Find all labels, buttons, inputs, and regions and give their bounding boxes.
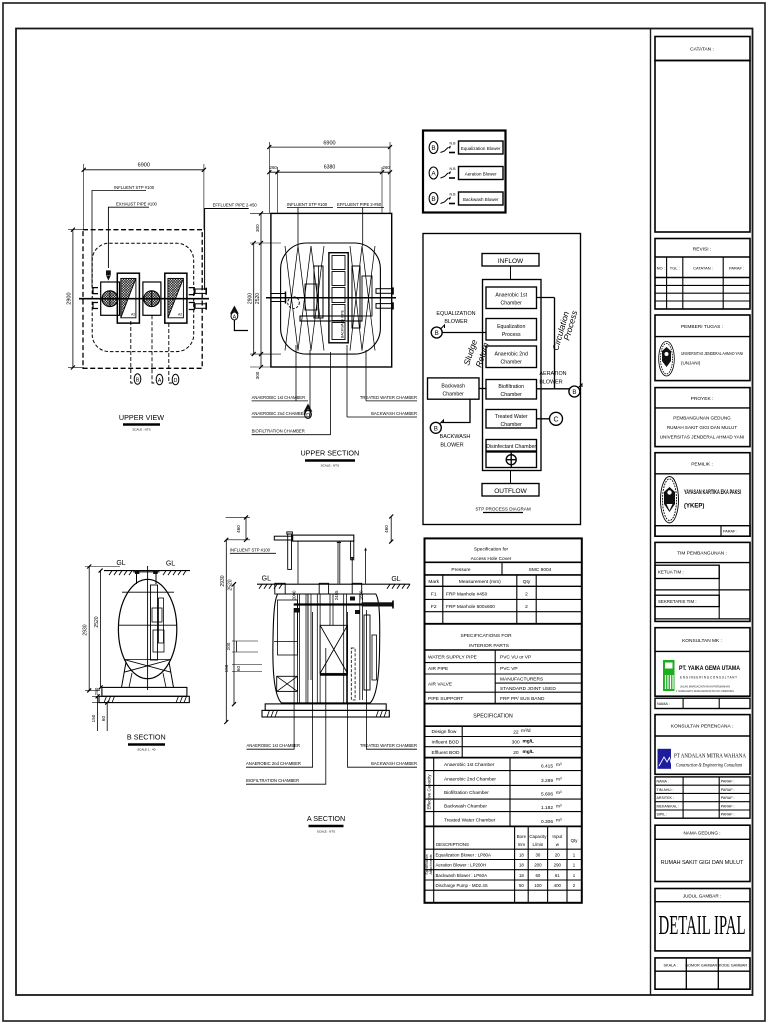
partitions (298, 594, 363, 704)
svg-text:Chamber: Chamber (501, 392, 523, 398)
svg-text:AIR PIPE: AIR PIPE (428, 666, 448, 672)
svg-text:Aeration Blower : LP200H: Aeration Blower : LP200H (436, 863, 487, 868)
andalan mitra wahana logo (658, 749, 673, 769)
svg-text:2485: 2485 (334, 590, 339, 600)
catatan body box (655, 61, 750, 233)
proyek section (655, 388, 750, 447)
svg-text:A SECTION: A SECTION (307, 814, 345, 823)
blower symbol B equalization (431, 327, 442, 338)
wire backwash chamber down to blower (442, 399, 471, 422)
svg-text:MEKANIKAL :: MEKANIKAL : (657, 804, 679, 808)
svg-text:Pressure: Pressure (451, 567, 471, 573)
svg-text:CATATAN :: CATATAN : (693, 266, 713, 271)
effluent pipes right (376, 289, 393, 294)
water levels (122, 591, 174, 593)
svg-text:PARAF :: PARAF : (721, 796, 735, 800)
egg tank b section (118, 579, 176, 678)
svg-text:D: D (306, 413, 310, 419)
svg-text:260: 260 (270, 165, 278, 170)
svg-text:460: 460 (236, 525, 241, 533)
disinfectant symbol box (486, 452, 537, 468)
catatan header box (655, 37, 750, 61)
ground hatch right a (387, 584, 410, 589)
tank neck b section (135, 570, 140, 574)
svg-text:Aeration Blower: Aeration Blower (465, 171, 497, 176)
svg-text:FRP PP/ SUS BAND: FRP PP/ SUS BAND (500, 696, 545, 702)
svg-text:300: 300 (512, 740, 520, 746)
svg-text:Measurement (mm): Measurement (mm) (459, 579, 501, 585)
svg-text:400: 400 (554, 883, 562, 888)
svg-text:Access Hole Cover: Access Hole Cover (471, 556, 512, 562)
svg-text:SEKRETARIS TIM :: SEKRETARIS TIM : (658, 599, 697, 604)
svg-text:FRP Manhole 600x600: FRP Manhole 600x600 (446, 604, 495, 610)
slab hatches (104, 696, 115, 702)
svg-text:SPECIFICATION: SPECIFICATION (473, 714, 513, 720)
svg-text:NO :: NO : (657, 266, 665, 271)
svg-text:GL: GL (262, 576, 271, 583)
svg-text:AIR VALVE: AIR VALVE (428, 682, 452, 688)
svg-text:60: 60 (236, 666, 241, 672)
ground line b section (104, 570, 190, 572)
svg-text:PVC VP: PVC VP (500, 666, 518, 672)
svg-text:GL: GL (116, 560, 125, 567)
specification section (425, 725, 582, 727)
yaika gema utama logo (663, 660, 675, 691)
svg-text:BLOWER: BLOWER (444, 319, 467, 325)
svg-text:B SECTION: B SECTION (127, 733, 166, 742)
svg-text:BIOFILTRATION CHAMBER: BIOFILTRATION CHAMBER (246, 778, 299, 783)
svg-text:UNIVERSITAS JENDERAL AHMAD YAN: UNIVERSITAS JENDERAL AHMAD YANI (660, 435, 745, 440)
svg-text:ANAEROBIC 2nd CHAMBER: ANAEROBIC 2nd CHAMBER (246, 761, 301, 766)
svg-text:2520: 2520 (255, 293, 261, 304)
svg-text:PEMBERI TUGAS :: PEMBERI TUGAS : (681, 324, 723, 330)
svg-text:PARAF :: PARAF : (721, 780, 735, 784)
svg-text:mg/L: mg/L (523, 749, 535, 755)
judul gambar section (655, 889, 750, 951)
legend row aeration blower (429, 167, 503, 180)
stem to tag A (152, 315, 156, 383)
svg-text:m³: m³ (556, 790, 562, 796)
svg-text:UPPER VIEW: UPPER VIEW (119, 413, 164, 422)
svg-text:INFLOW: INFLOW (498, 258, 524, 265)
svg-text:mg/L: mg/L (523, 738, 535, 744)
unjani logo (659, 341, 675, 376)
legend row backwash blower (429, 192, 503, 205)
svg-text:B: B (434, 425, 438, 432)
svg-text:NOMOR GAMBAR :: NOMOR GAMBAR : (685, 964, 719, 968)
influent pipe (271, 294, 286, 302)
svg-text:Chamber: Chamber (501, 422, 523, 428)
legend box (423, 131, 506, 213)
svg-text:ANAEROBIC 2nd CHAMBER: ANAEROBIC 2nd CHAMBER (252, 411, 307, 416)
blower symbol B aeration (569, 386, 580, 397)
svg-text:Attachments: Attachments (429, 854, 433, 874)
svg-text:FRP Manhole #450: FRP Manhole #450 (446, 592, 488, 598)
svg-text:SKALA :: SKALA : (664, 964, 678, 968)
svg-text:m³: m³ (556, 804, 562, 810)
wire equalization blower to process (442, 332, 486, 334)
svg-text:SMC 9004: SMC 9004 (529, 567, 552, 573)
svg-text:1.182: 1.182 (541, 805, 553, 811)
svg-text:A2: A2 (131, 313, 135, 317)
center axis line (79, 298, 209, 300)
internal pipes anaerobic (314, 266, 323, 318)
svg-text:KODE GAMBAR :: KODE GAMBAR : (719, 964, 749, 968)
svg-text:PEMBANGUNAN GEDUNG: PEMBANGUNAN GEDUNG (673, 416, 731, 421)
spec table outer box (425, 538, 582, 902)
upper section outer box (271, 213, 392, 367)
effluent pipe stubs (195, 289, 206, 293)
svg-text:Qty: Qty (523, 579, 531, 585)
svg-text:Process: Process (502, 332, 521, 338)
dim 2930 b section (85, 565, 120, 693)
svg-text:6900: 6900 (323, 141, 335, 147)
svg-text:Treated Water: Treated Water (495, 414, 528, 420)
svg-text:J. MARGAHAYU KENCANA BLOK B-II: J. MARGAHAYU KENCANA BLOK B-II NO.1 BAND… (676, 689, 734, 693)
svg-text:NAMA :: NAMA : (657, 702, 670, 706)
dim 460 top right a section (389, 515, 393, 544)
effective capacity group (425, 770, 582, 772)
svg-text:m³: m³ (556, 818, 562, 824)
stem to tag D (169, 323, 172, 383)
wire biofiltration to aeration blower (537, 388, 572, 390)
dim 2520 b section (99, 569, 103, 690)
svg-text:SCALE : NTS: SCALE : NTS (132, 428, 150, 432)
base slab b section (102, 687, 187, 696)
svg-text:SCALE 1 : 40: SCALE 1 : 40 (137, 748, 156, 752)
svg-text:Chamber: Chamber (501, 360, 523, 366)
tim pembangunan section (655, 542, 750, 621)
svg-text:SCALE : NTS: SCALE : NTS (317, 830, 335, 834)
svg-text:D: D (174, 378, 178, 384)
svg-text:RUMAH SAKIT GIGI DAN MULUT: RUMAH SAKIT GIGI DAN MULUT (667, 425, 738, 430)
svg-text:6380: 6380 (324, 165, 336, 171)
hatched square 1 (117, 273, 139, 323)
svg-text:Backwash Chamber: Backwash Chamber (444, 804, 487, 810)
dim 6900 upper section (267, 145, 392, 149)
stp diagram outer box (423, 234, 581, 525)
svg-text:Treated Water Chamber: Treated Water Chamber (444, 818, 496, 824)
svg-text:Discharge Pump - MD2.4S: Discharge Pump - MD2.4S (436, 883, 488, 888)
svg-text:Mark: Mark (428, 579, 439, 585)
svg-text:Capacity: Capacity (529, 834, 547, 839)
svg-text:Effluent BOD: Effluent BOD (432, 750, 460, 756)
right chamber internals (351, 648, 355, 700)
top riser boxes (275, 583, 285, 594)
svg-text:F1: F1 (431, 592, 437, 598)
bottom cross bracing (124, 660, 171, 673)
revisi section box (655, 239, 750, 310)
svg-text:Equalization Blower : LP80A: Equalization Blower : LP80A (436, 853, 491, 858)
svg-text:PT. YAIKA GEMA UTAMA: PT. YAIKA GEMA UTAMA (679, 665, 740, 672)
media column (329, 253, 348, 343)
collector band (300, 316, 362, 321)
svg-text:C: C (553, 417, 558, 424)
access hole cover table (425, 561, 582, 563)
svg-text:250: 250 (94, 687, 99, 695)
base slab a section (265, 704, 386, 711)
svg-text:3.289: 3.289 (541, 778, 553, 784)
svg-text:5.606: 5.606 (541, 792, 553, 798)
konsultan perencana section (655, 715, 750, 775)
baffle cones (285, 246, 375, 351)
svg-text:KONSULTAN MK :: KONSULTAN MK : (682, 638, 722, 644)
svg-text:A2: A2 (178, 313, 182, 317)
svg-text:150: 150 (91, 714, 96, 722)
section marker D (304, 404, 313, 412)
ground hatch left (109, 571, 132, 576)
svg-text:AERATION: AERATION (539, 371, 566, 377)
svg-text:PVC VU or VP: PVC VU or VP (500, 655, 531, 661)
backwash chamber box (428, 378, 480, 399)
svg-text:Bore: Bore (517, 834, 527, 839)
svg-text:Biofiltration: Biofiltration (498, 384, 524, 390)
svg-text:TIM PEMBANGUNAN :: TIM PEMBANGUNAN : (677, 551, 727, 557)
outlet brackets (189, 288, 195, 310)
svg-text:300: 300 (255, 224, 260, 232)
anaerobic 2nd chamber box (486, 346, 537, 368)
svg-text:Anaerobic 2nd: Anaerobic 2nd (494, 352, 528, 358)
svg-text:CATATAN :: CATATAN : (690, 47, 714, 53)
svg-text:SIPIL :: SIPIL : (657, 813, 668, 817)
wire anaerobic1 to circulation (537, 297, 555, 299)
svg-text:INTERIOR PARTS: INTERIOR PARTS (469, 643, 509, 649)
svg-text:Backwash: Backwash (441, 383, 465, 389)
blower symbol B backwash (430, 422, 441, 433)
slab hatches a (267, 710, 278, 717)
svg-text:290: 290 (554, 863, 562, 868)
svg-text:EFFLUENT PIPE 2-#50: EFFLUENT PIPE 2-#50 (213, 202, 258, 207)
svg-text:BACKWASH PIPE: BACKWASH PIPE (341, 309, 345, 338)
svg-text:PARAF :: PARAF : (721, 788, 735, 792)
ykep logo (661, 477, 679, 523)
svg-text:BACKWASH CHAMBER: BACKWASH CHAMBER (371, 411, 417, 416)
svg-text:YAYASAN KARTIKA EKA PAKSI: YAYASAN KARTIKA EKA PAKSI (684, 490, 741, 496)
svg-text:WATER SUPPLY PIPE: WATER SUPPLY PIPE (428, 655, 477, 661)
skala table (655, 958, 750, 989)
svg-text:BLOWER: BLOWER (440, 443, 463, 449)
svg-text:INFLUENT STP #100: INFLUENT STP #100 (114, 185, 155, 190)
svg-text:UNIVERSITAS JENDERAL AHMAD YAN: UNIVERSITAS JENDERAL AHMAD YANI (681, 351, 743, 356)
svg-text:2: 2 (525, 604, 528, 610)
pemilik paraf row (655, 526, 750, 537)
left dims upper section (250, 211, 281, 369)
svg-text:SCALE : NTS: SCALE : NTS (321, 464, 339, 468)
circle C treated water (550, 412, 563, 425)
outflow box (482, 484, 539, 497)
effluent pipe right (362, 602, 393, 606)
svg-text:18: 18 (519, 863, 524, 868)
small fittings (294, 608, 300, 613)
chamber container (483, 280, 542, 471)
svg-text:Biofiltration Chamber: Biofiltration Chamber (444, 790, 489, 796)
svg-text:JUDUL GAMBAR :: JUDUL GAMBAR : (683, 894, 721, 899)
svg-text:UPPER SECTION: UPPER SECTION (300, 449, 359, 458)
svg-text:Anaerobic 2nd Chamber: Anaerobic 2nd Chamber (444, 777, 496, 783)
internal pipes b section (151, 585, 158, 660)
svg-text:460: 460 (384, 525, 389, 533)
pemilik section (655, 453, 750, 537)
svg-text:NAMA :: NAMA : (657, 780, 669, 784)
svg-text:NAMA GEDUNG :: NAMA GEDUNG : (683, 831, 720, 836)
svg-text:ARSITEK :: ARSITEK : (657, 796, 674, 800)
svg-text:m³: m³ (556, 762, 562, 768)
svg-text:18: 18 (519, 853, 524, 858)
svg-text:Chamber: Chamber (501, 301, 523, 307)
legs (122, 662, 174, 687)
svg-text:MANUFACTURERS: MANUFACTURERS (500, 677, 543, 683)
ground hatch left a (259, 584, 282, 589)
legend row equalization blower (429, 141, 503, 154)
svg-text:KETUA TIM :: KETUA TIM : (658, 570, 684, 575)
tank body a section (273, 594, 380, 703)
svg-text:260: 260 (383, 165, 391, 170)
svg-text:Backwash Blower: Backwash Blower (463, 197, 499, 202)
svg-text:Disinfectant Chamber: Disinfectant Chamber (486, 444, 536, 450)
svg-text:150: 150 (224, 664, 229, 672)
svg-text:20: 20 (555, 853, 560, 858)
svg-text:GL: GL (391, 576, 400, 583)
svg-text:BACKWASH CHAMBER: BACKWASH CHAMBER (371, 761, 417, 766)
svg-text:Anaerobic 1st: Anaerobic 1st (495, 293, 527, 299)
svg-text:TREATED WATER CHAMBER: TREATED WATER CHAMBER (360, 743, 417, 748)
svg-text:F2: F2 (431, 604, 437, 610)
svg-text:61: 61 (555, 873, 560, 878)
svg-text:PROYEK :: PROYEK : (691, 396, 714, 402)
svg-text:m³/d: m³/d (521, 728, 531, 734)
svg-text:(UNJANI): (UNJANI) (681, 361, 701, 366)
svg-text:Design flow: Design flow (432, 729, 457, 735)
center axis upper section (266, 297, 396, 299)
svg-text:A: A (158, 378, 162, 384)
svg-text:2930: 2930 (220, 575, 226, 586)
dim 150 and 60 b section (92, 694, 112, 731)
title block divider line (650, 29, 652, 996)
right chamber equipment (352, 266, 360, 328)
svg-text:18: 18 (519, 873, 524, 878)
wire backwash chamber to biofiltration (479, 388, 486, 390)
svg-text:1850: 1850 (358, 590, 363, 600)
svg-text:(YKEP): (YKEP) (684, 504, 704, 510)
svg-text:2900: 2900 (248, 293, 254, 304)
biofiltration chamber box (486, 380, 537, 400)
svg-text:Chamber: Chamber (443, 391, 465, 397)
svg-text:RUMAH SAKIT GIGI DAN MULUT: RUMAH SAKIT GIGI DAN MULUT (661, 860, 744, 866)
svg-text:Construction & Engineering Con: Construction & Engineering Consultant (676, 764, 743, 769)
collector band (294, 603, 380, 605)
konsultan mk nama row (655, 698, 750, 708)
svg-text:N.B: N.B (450, 193, 457, 197)
svg-text:60: 60 (535, 873, 540, 878)
blower 1 assembly (101, 282, 120, 315)
svg-text:22: 22 (513, 729, 519, 735)
svg-text:300: 300 (255, 371, 260, 379)
svg-text:STP PROCESS DIAGRAM: STP PROCESS DIAGRAM (475, 507, 530, 512)
dim 260 6380 260 (267, 142, 392, 213)
svg-text:OUTFLOW: OUTFLOW (494, 488, 527, 495)
anaerobic 1st chamber box (486, 287, 537, 309)
svg-text:B: B (136, 377, 140, 383)
svg-text:TIM AHLI :: TIM AHLI : (657, 788, 674, 792)
dim 460 top left a section (226, 515, 250, 541)
svg-text:6.415: 6.415 (541, 764, 553, 770)
svg-text:Equalization: Equalization (497, 324, 525, 330)
svg-text:0.306: 0.306 (541, 819, 553, 825)
middle X bracing (320, 625, 347, 673)
svg-text:Anaerobic 1st Chamber: Anaerobic 1st Chamber (444, 762, 495, 768)
center pipe (147, 566, 149, 690)
pemberi tugas section (655, 315, 750, 381)
svg-text:STANDARD JOINT USED: STANDARD JOINT USED (500, 686, 556, 692)
svg-text:60: 60 (101, 716, 106, 722)
svg-text:Equalization Blower: Equalization Blower (461, 146, 501, 151)
middle pipes (308, 594, 333, 680)
svg-text:PARAF :: PARAF : (729, 266, 744, 271)
svg-text:EFFLUENT PIPE 2-#50: EFFLUENT PIPE 2-#50 (337, 202, 382, 207)
wire treated water to C (537, 418, 550, 420)
svg-text:DESCRIPTIONS: DESCRIPTIONS (436, 842, 469, 847)
svg-text:TREATED WATER CHAMBER: TREATED WATER CHAMBER (360, 395, 417, 400)
exhaust stub (106, 270, 111, 275)
svg-text:30: 30 (535, 853, 540, 858)
svg-text:100: 100 (534, 883, 542, 888)
svg-text:Qty: Qty (571, 838, 579, 843)
svg-text:B: B (435, 330, 439, 337)
svg-text:200: 200 (226, 642, 231, 650)
disinfectant chamber box (486, 440, 537, 452)
blower table (425, 848, 582, 850)
svg-text:JALAN MARGACINTA RAYA PERUMAHA: JALAN MARGACINTA RAYA PERUMAHAN (680, 685, 730, 689)
svg-text:BACKWASH: BACKWASH (440, 434, 471, 440)
section marker A (230, 306, 239, 314)
svg-text:200: 200 (534, 863, 542, 868)
svg-text:DETAIL IPAL: DETAIL IPAL (659, 910, 746, 940)
svg-text:B: B (431, 196, 435, 203)
svg-text:20: 20 (513, 750, 519, 756)
svg-text:A: A (431, 171, 436, 178)
konsultan mk section (655, 628, 750, 697)
main flow line (510, 266, 512, 484)
svg-text:m³: m³ (556, 777, 562, 783)
svg-text:2: 2 (525, 592, 528, 598)
svg-text:PT ANDALAN MITRA WAHANA: PT ANDALAN MITRA WAHANA (674, 753, 746, 760)
perencana signature table (655, 777, 750, 818)
svg-text:N.B: N.B (450, 167, 457, 171)
svg-text:2900: 2900 (67, 292, 73, 304)
inflow box (482, 254, 539, 267)
inlet brackets (93, 288, 98, 309)
svg-text:50: 50 (519, 883, 524, 888)
svg-text:EXHAUST PIPE #100: EXHAUST PIPE #100 (116, 201, 158, 206)
revisi table (655, 277, 750, 279)
ground line a section (257, 583, 410, 585)
svg-text:Influent BOD: Influent BOD (432, 739, 460, 745)
svg-text:SPECIFICATIONS FOR: SPECIFICATIONS FOR (460, 633, 512, 639)
dim 2930 2520 a section (224, 538, 236, 724)
svg-text:EQUALIZATION: EQUALIZATION (436, 311, 475, 317)
svg-text:6900: 6900 (138, 163, 150, 169)
svg-text:KONSULTAN PERENCANA :: KONSULTAN PERENCANA : (671, 724, 733, 730)
svg-text:BIOFILTRATION CHAMBER: BIOFILTRATION CHAMBER (252, 429, 305, 434)
chamber internals left (278, 600, 298, 655)
svg-text:PEMILIK :: PEMILIK : (691, 462, 713, 468)
dashed property rect (83, 230, 202, 369)
svg-text:2520: 2520 (94, 616, 100, 627)
ground hatch right (163, 571, 186, 576)
hatched square 2 (165, 273, 187, 323)
svg-text:REVISI :: REVISI : (693, 247, 711, 253)
wire circulation vertical (554, 298, 556, 389)
